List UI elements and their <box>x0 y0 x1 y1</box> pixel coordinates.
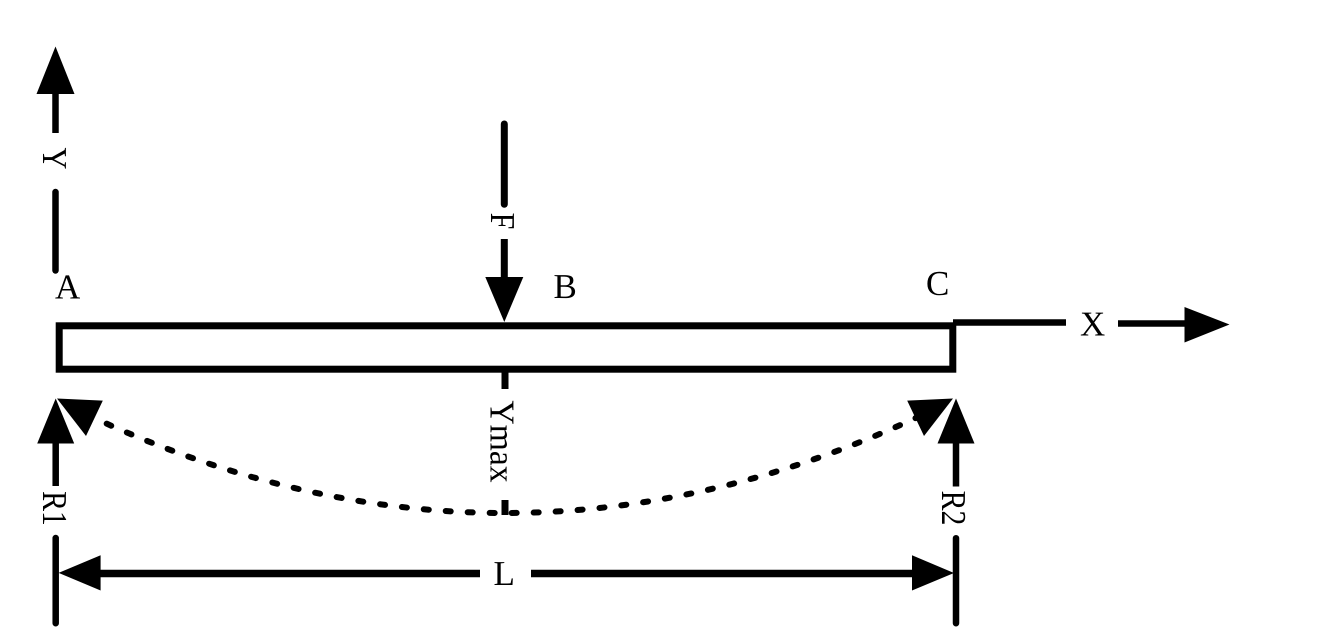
label R2 <box>942 492 965 524</box>
node C <box>927 272 947 296</box>
reaction R2 arrow <box>938 399 975 624</box>
label X <box>1081 313 1105 336</box>
label Y <box>43 148 66 169</box>
Ymax dimension lower tick <box>502 500 509 515</box>
label R1 <box>43 492 66 524</box>
X axis arrow <box>953 307 1230 343</box>
node A <box>55 275 80 298</box>
Y axis arrow <box>37 47 75 271</box>
deflection curve (dashed) <box>57 400 953 513</box>
label F <box>491 214 514 229</box>
label Ymax <box>490 401 513 482</box>
beam rectangle <box>59 326 953 369</box>
force F arrow <box>485 124 523 322</box>
node B <box>555 275 576 298</box>
deflection curve right arrowhead <box>907 399 953 437</box>
deflection curve left arrowhead <box>57 399 103 437</box>
label L <box>495 562 513 585</box>
reaction R1 arrow <box>37 399 74 624</box>
dimension L line <box>59 555 954 590</box>
Ymax dimension upper tick <box>502 372 509 389</box>
